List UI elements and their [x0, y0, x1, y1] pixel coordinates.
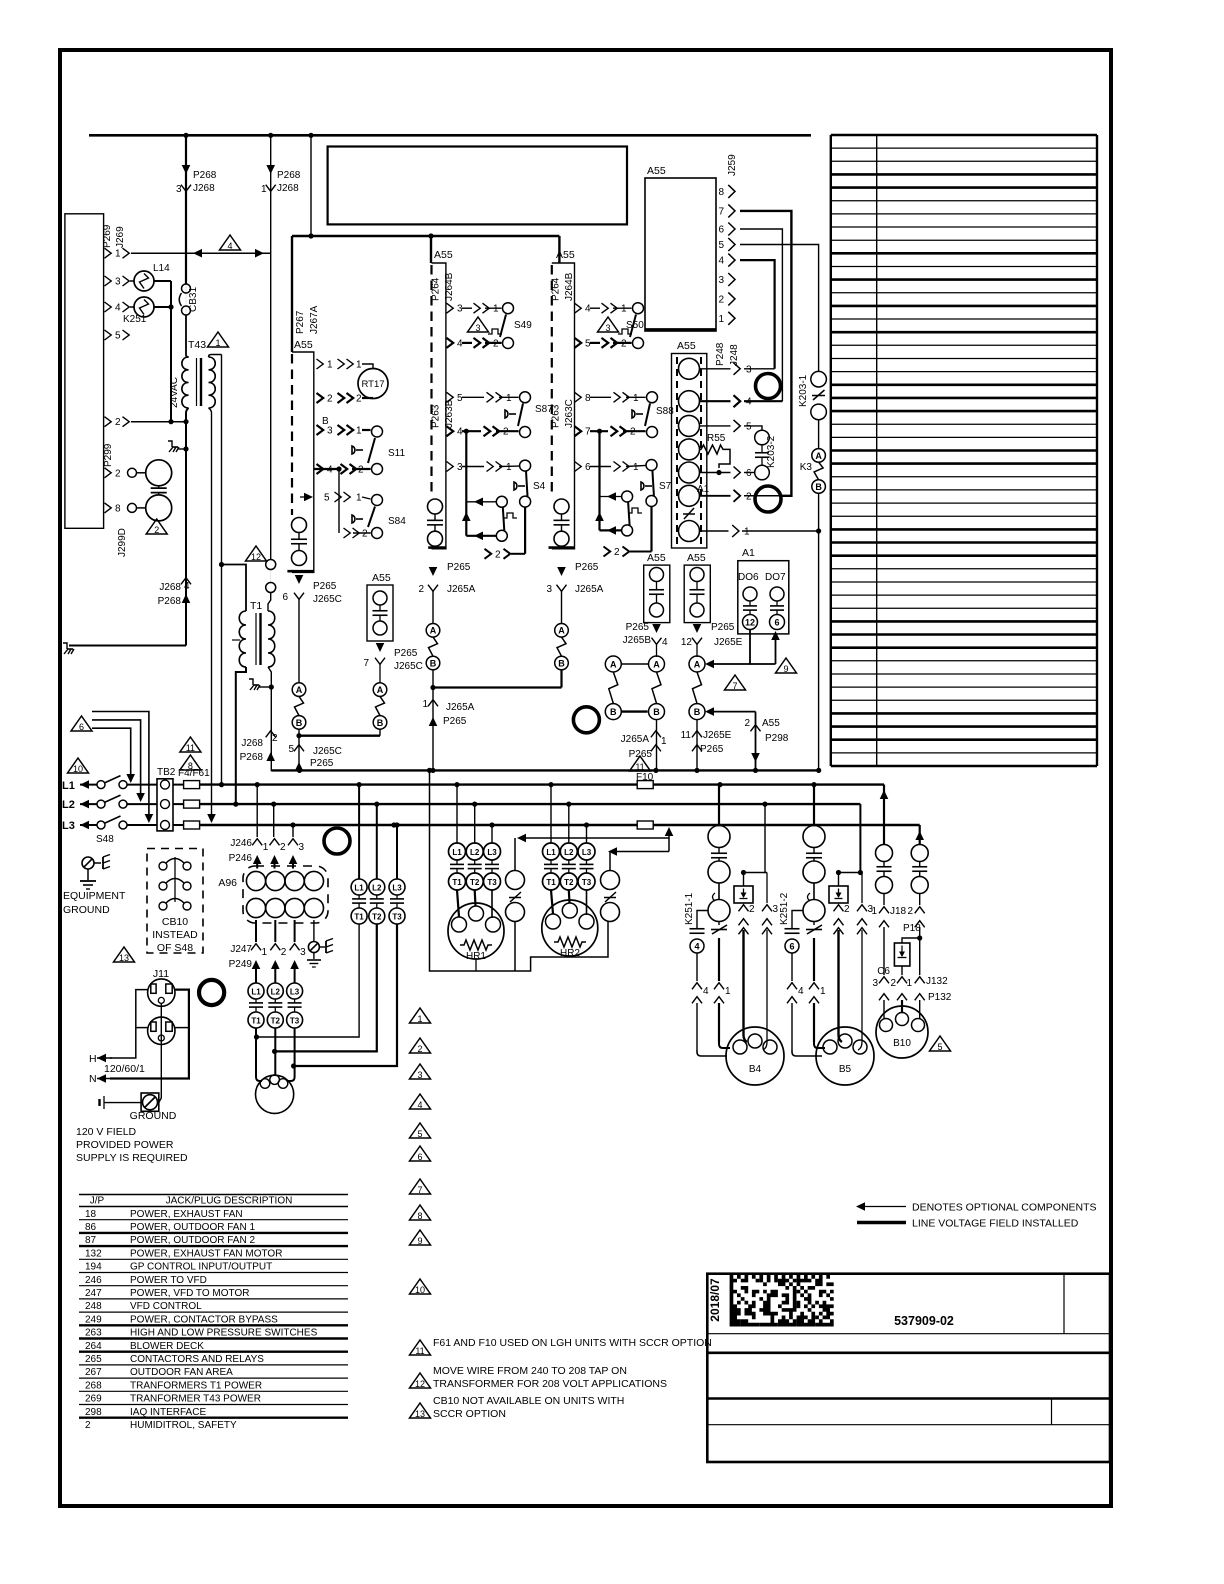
- svg-text:J265E: J265E: [714, 637, 743, 648]
- plug chevrons under K251-2: [787, 983, 797, 990]
- pin 3 of J269: [105, 276, 112, 286]
- svg-text:5: 5: [115, 331, 121, 342]
- svg-text:L3: L3: [392, 884, 402, 893]
- terminal block TB2: [157, 779, 173, 831]
- svg-text:A55: A55: [294, 339, 313, 351]
- wire K251-1 aux 3 to B4: [763, 930, 767, 1050]
- svg-text:J264B: J264B: [564, 272, 575, 301]
- plug chevrons under K251-1: [692, 983, 702, 990]
- svg-text:J265B: J265B: [623, 635, 652, 646]
- svg-text:TRANFORMER T43 POWER: TRANFORMER T43 POWER: [130, 1394, 261, 1405]
- svg-text:P265: P265: [700, 744, 724, 755]
- wire top 24V bus: [89, 134, 811, 137]
- pin row 3 to switch S49: [447, 303, 454, 313]
- wire HR2 L1 drop: [550, 785, 552, 843]
- svg-text:2: 2: [844, 904, 850, 915]
- wire L2 to J246-2: [273, 804, 275, 837]
- svg-text:5: 5: [746, 421, 752, 432]
- wire T43 secondary hot x221.5 down to L1: [221, 355, 223, 785]
- svg-text:T2: T2: [271, 1017, 281, 1026]
- svg-text:T2: T2: [564, 878, 574, 887]
- wire L3 to J246-3: [292, 825, 294, 837]
- svg-text:J265C: J265C: [313, 594, 342, 605]
- svg-text:537909-02: 537909-02: [894, 1314, 954, 1328]
- pin row 5 to switch S84: [300, 496, 309, 498]
- warning triangle 3 col3: [598, 317, 619, 332]
- circuit breaker CB31: [182, 284, 191, 293]
- svg-text:VFD CONTROL: VFD CONTROL: [130, 1301, 202, 1312]
- svg-text:2: 2: [907, 906, 913, 917]
- svg-text:12: 12: [745, 617, 755, 627]
- warning triangle 5 at B10: [930, 1036, 951, 1051]
- wire L2 line: [200, 803, 861, 805]
- node col3 row7: [597, 429, 602, 434]
- svg-text:J246: J246: [230, 838, 252, 849]
- capacitor bars of damper actuator: [151, 487, 167, 489]
- svg-text:A: A: [610, 659, 617, 669]
- wire K3 to bus: [818, 493, 820, 770]
- warning triangle 2: [410, 1038, 431, 1053]
- svg-text:A55: A55: [556, 249, 575, 261]
- svg-text:L3: L3: [582, 848, 592, 857]
- svg-text:1: 1: [327, 360, 333, 371]
- svg-text:246: 246: [85, 1275, 102, 1286]
- svg-text:BLOWER DECK: BLOWER DECK: [130, 1341, 204, 1352]
- svg-text:A55: A55: [762, 718, 780, 729]
- wire K251-2 output 2 to B5: [839, 930, 843, 1042]
- wire A-A link: [621, 663, 648, 665]
- fan motor B4: [697, 1050, 727, 1056]
- svg-text:L2: L2: [470, 848, 480, 857]
- svg-text:P248: P248: [715, 342, 726, 366]
- svg-text:5: 5: [937, 1042, 942, 1052]
- pin P248-3: [700, 368, 731, 370]
- grommet circle mid: [573, 707, 599, 733]
- plug 12 P265/J265E: [693, 624, 702, 633]
- svg-text:K3: K3: [800, 462, 813, 473]
- svg-text:IAQ INTERFACE: IAQ INTERFACE: [130, 1407, 206, 1418]
- connector A55 small block J265B: [644, 565, 670, 623]
- legend line voltage field installed: [857, 1221, 906, 1224]
- equipment ground symbol: [82, 857, 94, 869]
- pins 2 and 3 of K251-1: [739, 905, 749, 912]
- svg-text:L1: L1: [546, 848, 556, 857]
- pin 1 of J269 with interlock line: [105, 248, 112, 258]
- fuse on L3: [637, 821, 653, 829]
- svg-text:B4: B4: [749, 1064, 762, 1075]
- svg-text:2: 2: [749, 904, 755, 915]
- sensor RT17: [358, 369, 388, 399]
- note 12: [410, 1373, 431, 1388]
- svg-text:J132: J132: [926, 976, 948, 987]
- disconnect switch S48: [97, 781, 105, 789]
- node bus K3: [816, 768, 821, 773]
- latching relay contact col3: [598, 431, 600, 530]
- diode suppressor box K251-1: [734, 886, 753, 903]
- terminal B col1: [292, 716, 306, 730]
- wire K251-1 output 2 to B4: [744, 930, 748, 1042]
- svg-text:12: 12: [251, 552, 261, 562]
- svg-text:3: 3: [457, 304, 463, 315]
- svg-text:DENOTES OPTIONAL COMPONENTS: DENOTES OPTIONAL COMPONENTS: [912, 1202, 1097, 1214]
- svg-text:P265: P265: [447, 562, 471, 573]
- svg-text:1: 1: [422, 699, 428, 710]
- pin row 3b to switch S4: [447, 462, 454, 472]
- grommet circle 2: [755, 486, 781, 512]
- square wave glyph S50: [618, 329, 632, 334]
- wire drop bus to A55 header line: [310, 135, 312, 236]
- svg-text:T1: T1: [354, 913, 364, 922]
- svg-text:3: 3: [872, 978, 878, 989]
- node bus col1: [297, 768, 302, 773]
- pin row 8 to switch S88: [575, 392, 582, 402]
- node bus-x270: [268, 133, 273, 138]
- border frame: [60, 50, 1111, 1506]
- node y236-x311: [308, 233, 313, 238]
- pin 8 of J299D: [105, 503, 112, 513]
- node col1 to bold tie: [296, 733, 301, 738]
- switch S49: [503, 303, 514, 314]
- svg-text:J268: J268: [241, 738, 263, 749]
- svg-text:T1: T1: [546, 878, 556, 887]
- grommet circle J246: [324, 828, 350, 854]
- terminal B col2: [426, 656, 440, 670]
- svg-text:269: 269: [85, 1394, 102, 1405]
- svg-text:4: 4: [718, 256, 724, 267]
- svg-text:264: 264: [85, 1341, 102, 1352]
- legend optional components arrow: [862, 1206, 906, 1208]
- svg-text:120/60/1: 120/60/1: [104, 1063, 145, 1075]
- svg-text:7: 7: [417, 1185, 422, 1195]
- svg-text:6: 6: [774, 617, 779, 627]
- wire heater return path: [427, 768, 432, 773]
- pin row 1 to RT17: [317, 359, 324, 369]
- svg-text:24VAC: 24VAC: [169, 377, 180, 408]
- svg-text:DO6: DO6: [738, 572, 759, 583]
- node C6 tap: [917, 935, 922, 940]
- svg-text:2: 2: [744, 718, 750, 729]
- svg-text:265: 265: [85, 1354, 102, 1365]
- svg-text:2: 2: [280, 842, 286, 853]
- relay K203-2: [755, 430, 770, 445]
- warning triangle 12: [246, 546, 267, 561]
- svg-text:POWER, OUTDOOR FAN 1: POWER, OUTDOOR FAN 1: [130, 1222, 255, 1233]
- plug P265-6/J265C below col1: [295, 575, 304, 584]
- exhaust fan circuit J18 circles: [876, 845, 893, 862]
- svg-text:P264: P264: [431, 277, 442, 301]
- node y236-x431: [428, 233, 433, 238]
- field power feeds with triangle 6: [71, 716, 92, 731]
- svg-text:298: 298: [85, 1407, 102, 1418]
- pin P248-6: [700, 472, 731, 474]
- arrow into L785: [80, 780, 89, 789]
- svg-text:2018/07: 2018/07: [708, 1278, 722, 1322]
- svg-text:1: 1: [718, 314, 724, 325]
- svg-text:2: 2: [890, 978, 896, 989]
- svg-text:OUTDOOR FAN AREA: OUTDOOR FAN AREA: [130, 1367, 233, 1378]
- wire bold tie y687: [433, 686, 562, 688]
- wire S4 bottom to pin 2 chevrons: [524, 507, 526, 554]
- node K3 line: [816, 528, 821, 533]
- svg-text:6: 6: [585, 462, 591, 473]
- svg-text:86: 86: [85, 1222, 97, 1233]
- svg-text:3: 3: [176, 184, 182, 195]
- switch S50: [633, 303, 644, 314]
- terminal A left pair: [605, 656, 621, 672]
- svg-text:SUPPLY IS REQUIRED: SUPPLY IS REQUIRED: [76, 1152, 188, 1164]
- wire L1 to bypass: [358, 785, 360, 879]
- svg-text:K251-2: K251-2: [779, 892, 790, 925]
- svg-text:P265: P265: [313, 581, 337, 592]
- svg-text:1: 1: [906, 978, 912, 989]
- svg-text:3: 3: [327, 426, 333, 437]
- svg-text:T1: T1: [452, 878, 462, 887]
- node col1 row4: [336, 466, 341, 471]
- wire L3 to bypass: [396, 825, 398, 879]
- svg-text:13: 13: [415, 1409, 425, 1419]
- svg-text:A1: A1: [742, 547, 755, 559]
- svg-text:247: 247: [85, 1288, 102, 1299]
- warning triangle 5: [410, 1123, 431, 1138]
- terminal A col1: [292, 683, 306, 697]
- svg-text:L3: L3: [62, 820, 75, 832]
- battery-ground glyph: [103, 1096, 105, 1109]
- svg-text:L3: L3: [487, 848, 497, 857]
- fan motor B10: [876, 1006, 928, 1058]
- svg-text:1: 1: [115, 249, 121, 260]
- svg-text:INSTEAD: INSTEAD: [152, 929, 198, 941]
- capacitor C6: [894, 943, 910, 966]
- svg-text:3: 3: [299, 842, 305, 853]
- switch S7: [646, 460, 657, 471]
- warning triangle 9: [410, 1230, 431, 1245]
- pin 2 of J299 to T43 primary: [105, 417, 112, 427]
- svg-text:2: 2: [356, 394, 362, 405]
- svg-text:2: 2: [281, 947, 287, 958]
- svg-text:1: 1: [356, 426, 362, 437]
- svg-text:H: H: [89, 1053, 97, 1065]
- unit control A55 box at J259: [645, 178, 716, 331]
- svg-text:L3: L3: [290, 988, 300, 997]
- svg-text:248: 248: [85, 1301, 102, 1312]
- plug contacts inside col2: [428, 499, 443, 514]
- svg-text:P265: P265: [443, 716, 467, 727]
- svg-text:4: 4: [184, 581, 190, 592]
- svg-text:3: 3: [546, 584, 552, 595]
- svg-text:A55: A55: [434, 249, 453, 261]
- svg-text:N: N: [89, 1073, 97, 1085]
- svg-text:JACK/PLUG DESCRIPTION: JACK/PLUG DESCRIPTION: [166, 1196, 293, 1207]
- svg-text:J263C: J263C: [564, 399, 575, 428]
- svg-text:3: 3: [457, 462, 463, 473]
- svg-text:GROUND: GROUND: [63, 904, 110, 916]
- pin row 7 to S88: [575, 426, 582, 436]
- svg-text:DO7: DO7: [765, 572, 786, 583]
- heater motor HR2: [542, 900, 598, 956]
- svg-text:263: 263: [85, 1328, 102, 1339]
- svg-text:J265E: J265E: [703, 730, 732, 741]
- svg-text:B: B: [610, 707, 617, 717]
- svg-text:4: 4: [417, 1100, 422, 1110]
- pin row 5 to switch S87: [447, 392, 454, 402]
- plug 5-J265C/P265 to bus: [294, 745, 304, 752]
- svg-text:P265: P265: [629, 749, 653, 760]
- svg-text:A: A: [558, 626, 565, 636]
- svg-text:120 V FIELD: 120 V FIELD: [76, 1126, 137, 1138]
- svg-text:3: 3: [746, 364, 752, 375]
- svg-text:2: 2: [272, 733, 278, 744]
- svg-text:B: B: [430, 658, 437, 668]
- svg-text:4: 4: [798, 986, 804, 997]
- svg-text:S4: S4: [533, 481, 546, 492]
- wire T43 primary return down x186: [186, 408, 189, 646]
- ground screw at A96: [313, 920, 315, 941]
- svg-text:L1: L1: [62, 780, 75, 792]
- node L3 dots: [290, 822, 295, 827]
- svg-text:B: B: [377, 718, 384, 728]
- warning triangle 4: [410, 1094, 431, 1109]
- svg-text:K203-2: K203-2: [766, 435, 777, 468]
- wire bold drop x292 into A55 P267 column: [291, 236, 293, 352]
- svg-text:P265: P265: [394, 648, 418, 659]
- svg-text:1: 1: [417, 1014, 422, 1024]
- svg-text:10: 10: [415, 1285, 425, 1295]
- svg-text:3: 3: [718, 275, 724, 286]
- svg-text:CONTACTORS AND RELAYS: CONTACTORS AND RELAYS: [130, 1354, 264, 1365]
- connector A55 P267/J267A box: [292, 352, 314, 572]
- svg-text:5: 5: [718, 240, 724, 251]
- svg-text:267: 267: [85, 1367, 102, 1378]
- warning triangle 4: [220, 235, 241, 250]
- svg-text:P264: P264: [551, 277, 562, 301]
- wire L1 to J246-1: [256, 785, 258, 837]
- wire L2 to bypass: [376, 804, 378, 879]
- svg-text:9: 9: [783, 664, 788, 674]
- motor leads L1 L2 L3 to T1 T2 T3: [248, 983, 264, 999]
- plug J268-4/P268 on T43 return: [181, 578, 191, 585]
- node bus J265E: [694, 768, 699, 773]
- svg-text:T3: T3: [582, 878, 592, 887]
- wire plug 2-A55/P298 to bus: [755, 712, 757, 771]
- svg-text:L2: L2: [564, 848, 574, 857]
- svg-text:P268: P268: [193, 170, 217, 181]
- svg-text:OF S48: OF S48: [157, 942, 193, 954]
- wire branch x221 to T1 primary: [222, 565, 247, 612]
- relay K251 coil: [130, 306, 134, 308]
- warning triangle 3 col2: [468, 317, 489, 332]
- wire 24V common bus y770: [271, 769, 818, 771]
- svg-text:P265: P265: [310, 758, 334, 769]
- svg-text:RT17: RT17: [361, 379, 384, 390]
- pin 2 of P299 damper circuit: [105, 468, 112, 478]
- svg-text:GROUND: GROUND: [130, 1110, 177, 1122]
- wire L1 to J18-1 with optional arrow: [883, 785, 885, 845]
- svg-text:L2: L2: [62, 799, 75, 811]
- wire T1 secondary return to ground and bus: [268, 667, 300, 770]
- link A-B J265E: [693, 672, 702, 703]
- svg-text:P298: P298: [765, 733, 789, 744]
- wire HR1 L3 drop: [491, 825, 493, 843]
- svg-text:J18: J18: [890, 906, 907, 917]
- wire drop to T1 with plug P268-1/J268: [270, 135, 272, 559]
- svg-text:A: A: [377, 685, 384, 695]
- ground lug box: [141, 1093, 159, 1111]
- svg-text:6: 6: [718, 225, 724, 236]
- svg-text:L1: L1: [251, 988, 261, 997]
- svg-text:J263B: J263B: [444, 399, 455, 428]
- svg-text:A: A: [653, 659, 660, 669]
- pin row 5 to S50: [575, 338, 582, 348]
- field connection box J269/P299: [65, 214, 104, 529]
- NC contact pair right of HR2: [601, 871, 620, 890]
- connector A55 P264C/P263C box: [552, 263, 575, 549]
- svg-text:C6: C6: [877, 966, 890, 977]
- svg-text:POWER, EXHAUST FAN: POWER, EXHAUST FAN: [130, 1209, 243, 1220]
- link A-B mid: [376, 696, 385, 715]
- wire J259-7 to P248-2 (bold): [740, 211, 791, 496]
- svg-text:2: 2: [115, 417, 121, 428]
- svg-text:3: 3: [605, 323, 610, 333]
- node T2 tie: [272, 1049, 277, 1054]
- svg-text:B: B: [558, 658, 565, 668]
- plug J132/P132: [879, 977, 889, 984]
- svg-text:2: 2: [327, 394, 333, 405]
- node col2 row4b: [464, 429, 469, 434]
- plug contacts inside col1: [292, 518, 307, 533]
- contactor K251-2 feed circles: [813, 785, 815, 825]
- warning triangle 11 at F10: [630, 756, 651, 771]
- svg-text:1: 1: [820, 986, 826, 997]
- svg-text:J268: J268: [277, 183, 299, 194]
- fan motor B5: [792, 1050, 822, 1056]
- node bus col2: [430, 768, 435, 773]
- link A-B col3: [557, 637, 566, 656]
- svg-text:S7: S7: [659, 481, 672, 492]
- wire contactor bypass T3: [294, 924, 397, 1066]
- wire HR1 L1 drop: [456, 785, 458, 843]
- node R55-6: [716, 470, 721, 475]
- svg-text:1: 1: [725, 986, 731, 997]
- svg-text:P268: P268: [240, 752, 264, 763]
- svg-text:1: 1: [506, 393, 512, 404]
- svg-text:6: 6: [417, 1152, 422, 1162]
- relay K203-1: [811, 371, 827, 387]
- svg-text:P269: P269: [102, 224, 113, 248]
- svg-text:J265A: J265A: [446, 702, 475, 713]
- ground at T43: [172, 446, 178, 448]
- svg-text:P265: P265: [626, 622, 650, 633]
- wire up-arrow into A1-6: [775, 637, 777, 664]
- pin P248-4 (bold): [700, 400, 731, 402]
- svg-text:A55: A55: [687, 552, 706, 564]
- svg-text:PROVIDED POWER: PROVIDED POWER: [76, 1139, 174, 1151]
- note 13: [410, 1403, 431, 1418]
- svg-text:4: 4: [585, 304, 591, 315]
- svg-text:P18: P18: [903, 923, 921, 934]
- svg-text:L2: L2: [372, 884, 382, 893]
- node bus J265A: [653, 768, 658, 773]
- svg-text:J265A: J265A: [447, 584, 476, 595]
- wire J259-6 to P248-4: [740, 229, 782, 401]
- data matrix barcode: [730, 1275, 834, 1327]
- svg-text:P299: P299: [103, 443, 114, 467]
- svg-text:T2: T2: [470, 878, 480, 887]
- wire ground bus at y645 with ground symbol: [69, 645, 186, 647]
- transformer T1 with breaker circles: [266, 560, 276, 570]
- svg-text:2: 2: [85, 1420, 91, 1431]
- svg-text:2: 2: [115, 468, 121, 479]
- svg-text:2: 2: [495, 549, 501, 560]
